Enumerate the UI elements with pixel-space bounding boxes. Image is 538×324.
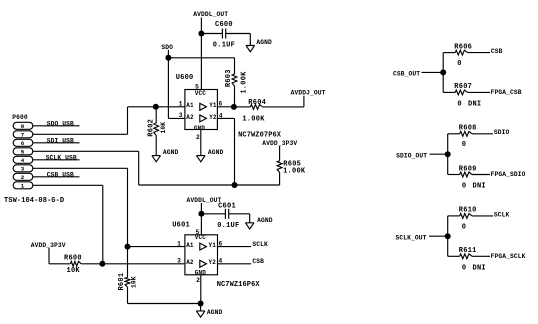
svg-text:AVDDJ_OUT: AVDDJ_OUT	[291, 90, 326, 97]
svg-text:0: 0	[462, 183, 466, 191]
svg-text:AVDD_3P3V: AVDD_3P3V	[262, 140, 297, 147]
svg-text:AVDD_3P3V: AVDD_3P3V	[31, 242, 66, 249]
svg-text:U600: U600	[176, 74, 194, 82]
buffer gate 1 (U601)	[200, 243, 207, 250]
svg-text:NC7WZ16P6X: NC7WZ16P6X	[217, 281, 261, 289]
svg-text:SCLK: SCLK	[494, 211, 510, 218]
capacitor C600	[222, 29, 225, 39]
svg-text:CSB: CSB	[252, 258, 264, 265]
wire P600-5 riser	[138, 151, 140, 185]
resistor R604 leads	[237, 106, 304, 108]
wire R610 to SCLK	[472, 215, 493, 217]
ground AGND (U600 GND)	[197, 156, 206, 162]
resistor R610	[460, 214, 472, 219]
wire SCLK_OUT to junction	[429, 235, 448, 237]
connector P600 pin 1	[13, 182, 33, 190]
svg-text:R607: R607	[454, 83, 472, 91]
svg-text:SCLK_USB: SCLK_USB	[46, 154, 77, 161]
svg-text:A1: A1	[186, 102, 194, 109]
svg-text:2: 2	[196, 277, 200, 284]
ground AGND (U601 GND)	[196, 311, 205, 317]
svg-text:C600: C600	[215, 21, 233, 29]
wire P600-2 stub (CSB_USB)	[33, 176, 80, 178]
svg-text:1: 1	[21, 182, 25, 189]
wire U600 A2 stub	[168, 117, 185, 119]
wire stub to AVDDJ_OUT	[303, 96, 305, 107]
resistor R600	[70, 261, 81, 266]
junction dot AVDDL/C601	[198, 211, 204, 217]
svg-text:GND: GND	[194, 125, 205, 132]
connector P600 pin 3	[13, 165, 33, 173]
svg-text:3: 3	[21, 165, 25, 172]
junction dot Y1 node	[231, 104, 237, 110]
wire to C600	[201, 33, 222, 35]
junction dot CSB_OUT	[440, 69, 446, 75]
wire R611 to FPGA_SCLK	[472, 255, 490, 257]
svg-text:R611: R611	[459, 247, 477, 255]
svg-text:AGND: AGND	[163, 149, 179, 156]
connector P600 pin 7	[13, 131, 33, 139]
svg-text:AGND: AGND	[257, 217, 273, 224]
svg-text:1.00K: 1.00K	[283, 168, 306, 176]
svg-text:SDIO: SDIO	[494, 129, 510, 136]
wire U601 A1 from junction	[128, 246, 185, 248]
wire C600 to ground	[226, 34, 250, 46]
svg-text:1.00K: 1.00K	[241, 71, 249, 94]
svg-text:0: 0	[462, 223, 466, 231]
svg-text:0: 0	[457, 60, 461, 68]
svg-text:3: 3	[179, 112, 183, 119]
wire U600 GND pin 2 to ground	[200, 130, 202, 156]
svg-text:DNI: DNI	[473, 265, 486, 273]
svg-text:A2: A2	[186, 114, 194, 121]
wire P600-8 stub (SDO_USB)	[33, 125, 80, 127]
junction dot AVDDL/C600	[198, 31, 204, 37]
svg-text:Y1: Y1	[209, 102, 217, 109]
svg-text:2: 2	[196, 134, 200, 141]
resistor R601	[125, 277, 130, 287]
svg-text:FPGA_SDIO: FPGA_SDIO	[491, 171, 526, 178]
wire P600-4 stub (SCLK_USB)	[33, 159, 80, 161]
junction dot SDO	[165, 55, 171, 61]
wire P600-7 to U600 A1	[128, 106, 185, 108]
svg-text:R610: R610	[459, 207, 477, 215]
svg-text:0.1UF: 0.1UF	[213, 41, 235, 49]
wire AVDDL_OUT down to U600 VCC pin 5	[200, 18, 202, 90]
svg-text:10K: 10K	[67, 267, 81, 275]
svg-text:Y2: Y2	[209, 259, 217, 266]
svg-text:FPGA_SCLK: FPGA_SCLK	[491, 253, 526, 260]
svg-text:R608: R608	[459, 125, 477, 133]
svg-text:0.1UF: 0.1UF	[217, 222, 239, 230]
svg-text:AGND: AGND	[256, 39, 272, 46]
resistor R602	[154, 123, 159, 136]
svg-text:1: 1	[177, 240, 181, 247]
svg-text:0: 0	[457, 101, 461, 109]
svg-text:1: 1	[179, 101, 183, 108]
wire to R607	[443, 91, 455, 93]
wire to R611	[448, 255, 460, 257]
connector P600 pin 5	[13, 148, 33, 156]
IC U600 body	[185, 90, 218, 130]
svg-text:SCLK_OUT: SCLK_OUT	[396, 234, 427, 241]
svg-text:AVDDL_OUT: AVDDL_OUT	[187, 197, 222, 204]
svg-text:DNI: DNI	[468, 101, 481, 109]
svg-text:SDI_USB: SDI_USB	[47, 137, 74, 144]
wire U600 Y2 pin 4 down to rail	[217, 118, 234, 185]
wire CSB_OUT to junction	[422, 71, 444, 73]
svg-text:0: 0	[462, 265, 466, 273]
svg-text:R609: R609	[459, 165, 477, 173]
ground AGND (C600)	[246, 46, 255, 52]
svg-text:TSW-104-08-G-D: TSW-104-08-G-D	[4, 197, 64, 205]
resistor R608	[460, 131, 472, 136]
resistor R603	[232, 74, 237, 86]
wire R609 to FPGA_SDIO	[472, 174, 490, 176]
svg-text:R606: R606	[454, 43, 472, 51]
wire R601 to GND node	[128, 303, 201, 305]
wire SCLK vertical	[447, 216, 449, 256]
resistor R603 leads	[234, 58, 236, 107]
svg-text:AGND: AGND	[208, 149, 224, 156]
svg-text:R604: R604	[248, 99, 266, 107]
svg-text:R600: R600	[64, 255, 82, 263]
svg-text:CSB_USB: CSB_USB	[47, 171, 74, 178]
svg-text:FPGA_CSB: FPGA_CSB	[491, 89, 522, 96]
junction dot rail	[232, 182, 238, 188]
svg-text:NC7WZ07P6X: NC7WZ07P6X	[238, 132, 282, 140]
wire GND node to ground	[200, 304, 202, 311]
svg-text:8: 8	[21, 123, 25, 130]
wire P600-7 to U600 A1 riser	[33, 107, 128, 135]
svg-text:R601: R601	[118, 273, 126, 291]
svg-text:AGND: AGND	[207, 309, 223, 316]
svg-text:2: 2	[21, 174, 25, 181]
resistor R609	[460, 172, 472, 177]
resistor R606	[455, 50, 467, 55]
wire to C601	[201, 213, 225, 215]
wire to R608	[448, 133, 460, 135]
wire SDIO_OUT to junction	[430, 153, 448, 155]
wire R608 to SDIO	[472, 133, 493, 135]
resistor R604	[250, 105, 262, 110]
wire U600 Y1 pin 6 to node	[217, 106, 234, 108]
ground AGND (C601)	[245, 223, 254, 229]
wire AVDDL_OUT down to U601 VCC pin 5	[200, 203, 202, 235]
svg-text:CSB: CSB	[491, 48, 503, 55]
wire C601 to ground	[229, 214, 250, 223]
wire R606 to CSB	[468, 52, 491, 54]
svg-text:DNI: DNI	[473, 183, 486, 191]
svg-text:A2: A2	[186, 259, 194, 266]
wire to R610	[448, 215, 460, 217]
resistor R602 leads	[155, 107, 157, 156]
wire SDO stub down to U600 A2	[167, 50, 169, 119]
IC U601 body	[185, 235, 218, 275]
svg-text:SDO: SDO	[161, 44, 173, 51]
wire P600-6 stub (SDI_USB)	[33, 142, 80, 144]
svg-text:U601: U601	[172, 221, 190, 229]
buffer gate 2 (U601)	[200, 260, 207, 267]
svg-text:0: 0	[462, 141, 466, 149]
wire U601 Y1 pin 6 stub (SCLK)	[218, 246, 252, 248]
svg-text:3: 3	[177, 258, 181, 265]
junction dot SDIO_OUT	[445, 151, 451, 157]
resistor R605 leads	[279, 146, 281, 185]
wire CSB vertical	[442, 53, 444, 93]
wire bottom rail (Y2 net)	[139, 184, 280, 186]
svg-text:SDIO_OUT: SDIO_OUT	[396, 153, 427, 160]
wire R607 to FPGA_CSB	[468, 91, 491, 93]
svg-text:R602: R602	[148, 119, 156, 137]
wire to R606	[443, 52, 455, 54]
resistor R605	[277, 161, 282, 173]
wire to R609	[448, 174, 460, 176]
svg-text:VCC: VCC	[195, 234, 206, 241]
junction dot R600/A2	[99, 261, 105, 267]
wire P600-3 to U601 A1	[33, 168, 128, 246]
svg-text:A1: A1	[186, 242, 194, 249]
buffer gate 2 (U600)	[200, 115, 207, 122]
svg-text:C601: C601	[218, 203, 236, 211]
svg-text:Y1: Y1	[209, 242, 217, 249]
junction dot U601 GND	[198, 301, 204, 307]
junction dot U601 A1 / R601	[125, 244, 131, 250]
resistor R611	[460, 254, 472, 259]
svg-text:VCC: VCC	[195, 90, 206, 97]
svg-text:AVDDL_OUT: AVDDL_OUT	[193, 11, 228, 18]
wire SDO to R603	[168, 57, 234, 59]
svg-text:5: 5	[21, 148, 25, 155]
svg-text:P600: P600	[12, 114, 28, 121]
connector P600 pin 8	[13, 122, 33, 130]
junction dot SCLK_OUT	[445, 233, 451, 239]
wire U601 Y2 pin 4 stub (CSB)	[218, 263, 252, 265]
svg-text:10K: 10K	[160, 122, 167, 134]
resistor R601 leads	[127, 247, 129, 304]
wire R600 to A2 node	[81, 263, 102, 265]
wire P600-5 to rail	[33, 150, 139, 152]
junction dot A1/R602	[153, 104, 159, 110]
wire U601 GND pin 2 down	[200, 275, 202, 304]
connector P600 pin 6	[13, 139, 33, 147]
wire AVDD_3P3V to R600	[49, 248, 70, 264]
svg-text:R603: R603	[225, 69, 233, 87]
svg-text:4: 4	[21, 157, 25, 164]
capacitor C601	[225, 209, 228, 219]
svg-text:SCLK: SCLK	[252, 241, 268, 248]
resistor R607	[455, 90, 467, 95]
svg-text:10K: 10K	[130, 276, 137, 288]
ground AGND (R602)	[152, 156, 161, 162]
svg-text:SDO_USB: SDO_USB	[47, 120, 74, 127]
wire U601 A2 from R600 node	[102, 263, 184, 265]
svg-text:CSB_OUT: CSB_OUT	[393, 71, 420, 78]
connector P600 pin 2	[13, 173, 33, 181]
buffer gate 1 (U600)	[200, 103, 207, 110]
svg-text:6: 6	[21, 140, 25, 147]
wire P600-1 to U601 A2	[33, 185, 103, 263]
wire SDIO vertical	[447, 134, 449, 175]
svg-text:1.00K: 1.00K	[242, 116, 265, 124]
svg-text:7: 7	[21, 131, 25, 138]
connector P600 pin 4	[13, 156, 33, 164]
svg-text:Y2: Y2	[209, 114, 217, 121]
